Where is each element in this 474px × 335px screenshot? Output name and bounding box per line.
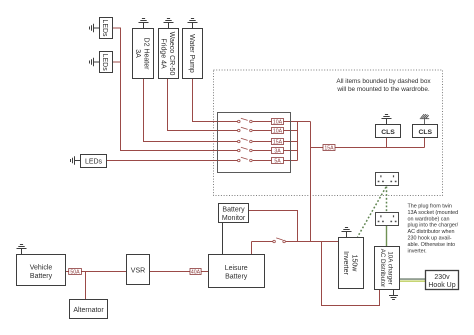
- svg-text:15A: 15A: [273, 139, 283, 145]
- svg-text:LEDs: LEDs: [101, 54, 108, 72]
- svg-text:BatteryMonitor: BatteryMonitor: [222, 207, 246, 223]
- svg-text:50A: 50A: [70, 269, 80, 275]
- svg-text:Alternator: Alternator: [73, 307, 104, 314]
- svg-text:13A socket (mounted: 13A socket (mounted: [408, 210, 459, 216]
- svg-text:The plug from twin: The plug from twin: [408, 204, 452, 210]
- svg-text:10A: 10A: [273, 119, 283, 125]
- svg-text:3A: 3A: [274, 148, 281, 154]
- svg-text:CLS: CLS: [381, 129, 395, 136]
- svg-text:Water Pump: Water Pump: [188, 34, 195, 73]
- svg-text:LeisureBattery: LeisureBattery: [225, 265, 248, 281]
- svg-text:10A chargerAC Distributor: 10A chargerAC Distributor: [379, 249, 394, 288]
- svg-text:LEDs: LEDs: [101, 19, 108, 37]
- svg-text:VehicleBattery: VehicleBattery: [30, 265, 53, 281]
- svg-text:plug into the charger/: plug into the charger/: [408, 223, 459, 229]
- svg-text:230v: 230v: [434, 274, 450, 281]
- svg-text:40A: 40A: [191, 269, 201, 275]
- svg-text:10A: 10A: [273, 128, 283, 134]
- svg-text:230 hook up avail-: 230 hook up avail-: [408, 236, 452, 242]
- svg-text:able. Otherwise into: able. Otherwise into: [408, 242, 456, 248]
- svg-text:All items bounded by dashed bo: All items bounded by dashed boxwill be m…: [336, 78, 431, 93]
- svg-text:on wardrobe) can: on wardrobe) can: [408, 216, 450, 222]
- svg-text:CLS: CLS: [418, 129, 432, 136]
- svg-text:LEDs: LEDs: [85, 159, 103, 166]
- svg-text:15A: 15A: [324, 145, 334, 151]
- svg-text:Hook Up: Hook Up: [428, 282, 455, 289]
- svg-text:AC distributor when: AC distributor when: [408, 229, 455, 235]
- svg-text:VSR: VSR: [131, 268, 145, 275]
- svg-text:5A: 5A: [274, 158, 281, 164]
- svg-text:inverter.: inverter.: [408, 248, 427, 254]
